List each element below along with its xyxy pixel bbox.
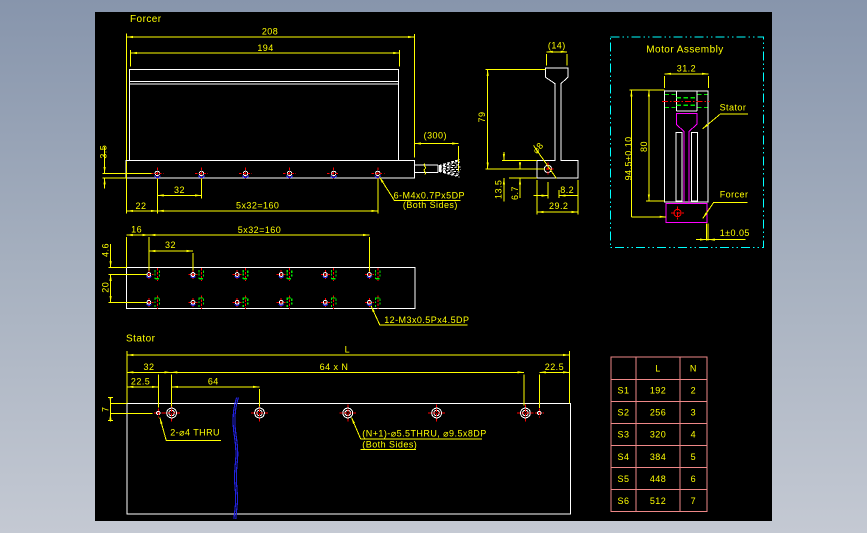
svg-text:13.5: 13.5 bbox=[494, 180, 504, 199]
side hole bbox=[542, 163, 555, 177]
extension lines below plate bbox=[127, 161, 378, 213]
dimension 22 front bbox=[127, 201, 158, 211]
svg-text:32: 32 bbox=[144, 362, 155, 372]
forcer section magenta bbox=[666, 114, 707, 223]
forcer base plate bbox=[126, 160, 414, 178]
svg-text:384: 384 bbox=[650, 452, 666, 462]
svg-text:S2: S2 bbox=[618, 408, 630, 418]
svg-text:S3: S3 bbox=[618, 430, 630, 440]
svg-text:512: 512 bbox=[650, 496, 666, 506]
forcer target mark bbox=[671, 206, 684, 219]
dimension 29.2 bbox=[537, 180, 578, 215]
assembly detail border bbox=[610, 37, 763, 248]
svg-text:32: 32 bbox=[165, 240, 176, 250]
magnet hidden lines green bbox=[665, 94, 707, 107]
svg-text:5x32=160: 5x32=160 bbox=[238, 225, 281, 235]
dimension (14) bbox=[546, 41, 567, 66]
svg-text:S5: S5 bbox=[618, 474, 630, 484]
dimension 22.5 right bbox=[539, 362, 569, 372]
svg-text:256: 256 bbox=[650, 408, 666, 418]
stator outline bbox=[127, 403, 571, 514]
leader note 2-dia4 bbox=[160, 418, 221, 441]
svg-text:4: 4 bbox=[691, 430, 696, 440]
svg-text:32: 32 bbox=[174, 185, 185, 195]
svg-text:1±0.05: 1±0.05 bbox=[720, 228, 750, 238]
svg-text:(14): (14) bbox=[548, 41, 566, 51]
dimension 7 stator bbox=[101, 397, 153, 422]
leader Forcer bbox=[703, 190, 749, 219]
svg-text:(Both Sides): (Both Sides) bbox=[403, 200, 458, 210]
dimension 5x32=160 top bbox=[149, 225, 370, 272]
forcer body outline bbox=[130, 69, 399, 160]
svg-text:L: L bbox=[655, 364, 660, 374]
svg-text:16: 16 bbox=[131, 225, 142, 235]
svg-text:22.5: 22.5 bbox=[131, 376, 150, 386]
table text bbox=[618, 364, 697, 506]
svg-text:31.2: 31.2 bbox=[677, 64, 696, 74]
break line blue bbox=[233, 398, 238, 520]
dimension 22.5 left bbox=[127, 376, 158, 387]
dimension L bbox=[127, 344, 570, 403]
stator section outline bbox=[665, 91, 709, 202]
leader note 6-M4 bbox=[379, 177, 465, 210]
stator counterbore holes bbox=[163, 405, 534, 422]
svg-text:448: 448 bbox=[650, 474, 666, 484]
dimension 194 bbox=[131, 43, 400, 67]
svg-text:S1: S1 bbox=[618, 386, 630, 396]
svg-text:5: 5 bbox=[691, 452, 696, 462]
dimension 32 front bbox=[157, 185, 201, 195]
table grid bbox=[611, 357, 707, 511]
dimension 6.7 bbox=[510, 162, 545, 200]
svg-text:29.2: 29.2 bbox=[549, 201, 568, 211]
svg-text:N: N bbox=[690, 364, 697, 374]
dimension 4.6 bbox=[100, 243, 146, 281]
svg-text:79: 79 bbox=[477, 112, 487, 123]
svg-text:194: 194 bbox=[257, 43, 273, 53]
leader note N+1 holes bbox=[352, 418, 487, 450]
drawing canvas background bbox=[95, 12, 772, 521]
tapped holes top view bbox=[144, 268, 380, 309]
svg-text:64 x N: 64 x N bbox=[320, 362, 349, 372]
svg-text:2-⌀4 THRU: 2-⌀4 THRU bbox=[170, 428, 220, 438]
dimension 94.5 bbox=[623, 90, 666, 217]
dimension 80 bbox=[639, 90, 664, 201]
svg-text:2: 2 bbox=[691, 386, 696, 396]
svg-text:5x32=160: 5x32=160 bbox=[236, 201, 279, 211]
forcer side profile bbox=[537, 68, 578, 178]
svg-text:320: 320 bbox=[650, 430, 666, 440]
stator extension lines bbox=[158, 374, 539, 408]
svg-text:8.2: 8.2 bbox=[560, 185, 574, 195]
svg-text:208: 208 bbox=[262, 27, 278, 37]
dimension 32 top bbox=[149, 240, 193, 271]
svg-text:94.5±0.10: 94.5±0.10 bbox=[623, 136, 633, 180]
svg-text:22: 22 bbox=[136, 201, 147, 211]
svg-text:3.5: 3.5 bbox=[98, 145, 108, 159]
forcer mounting holes front bbox=[151, 168, 384, 180]
dimension 31.2 bbox=[665, 64, 709, 89]
forcer top view outline bbox=[127, 268, 415, 309]
svg-text:7: 7 bbox=[691, 496, 696, 506]
dimension 3.5 bbox=[98, 145, 151, 189]
svg-text:(N+1)-⌀5.5THRU, ⌀9.5x8DP: (N+1)-⌀5.5THRU, ⌀9.5x8DP bbox=[362, 428, 486, 438]
svg-text:7: 7 bbox=[101, 407, 111, 412]
svg-text:80: 80 bbox=[639, 141, 649, 152]
svg-text:4.6: 4.6 bbox=[100, 243, 110, 257]
dimension 32 stator bbox=[127, 362, 171, 373]
svg-text:Forcer: Forcer bbox=[720, 190, 749, 200]
svg-text:Forcer: Forcer bbox=[130, 14, 162, 25]
dimension 208 bbox=[127, 27, 415, 161]
dimension 1 gap bbox=[696, 224, 750, 241]
dimension 16 top bbox=[126, 225, 149, 271]
svg-text:Stator: Stator bbox=[126, 334, 156, 345]
svg-text:L: L bbox=[345, 344, 350, 354]
svg-text:3: 3 bbox=[691, 408, 696, 418]
leader dia 8 bbox=[531, 140, 557, 178]
cable bbox=[414, 164, 438, 175]
svg-text:Stator: Stator bbox=[720, 102, 747, 112]
svg-text:S4: S4 bbox=[618, 452, 630, 462]
dimension (300) bbox=[414, 130, 458, 171]
dimension 64 bbox=[172, 376, 260, 387]
svg-text:S6: S6 bbox=[618, 496, 630, 506]
stator small holes bbox=[154, 409, 544, 418]
svg-text:6.7: 6.7 bbox=[510, 186, 520, 200]
magnet plates bbox=[676, 132, 698, 201]
dimension 64xN bbox=[171, 362, 524, 372]
leader note 12-M3 bbox=[371, 306, 469, 325]
dimension 79 bbox=[477, 69, 545, 168]
svg-text:12-M3x0.5Px4.5DP: 12-M3x0.5Px4.5DP bbox=[384, 315, 469, 325]
dimension 20 bbox=[100, 275, 146, 303]
svg-text:6: 6 bbox=[691, 474, 696, 484]
svg-text:(Both Sides): (Both Sides) bbox=[362, 440, 417, 450]
svg-text:Motor Assembly: Motor Assembly bbox=[646, 44, 723, 55]
dimension 13.5 bbox=[494, 152, 538, 201]
cable wire brush bbox=[439, 160, 461, 178]
svg-text:22.5: 22.5 bbox=[545, 362, 564, 372]
leader Stator bbox=[703, 102, 748, 129]
svg-text:192: 192 bbox=[650, 386, 666, 396]
dimension 5x32=160 front bbox=[157, 201, 377, 211]
svg-text:(300): (300) bbox=[424, 130, 447, 140]
svg-text:6-M4x0.7Px5DP: 6-M4x0.7Px5DP bbox=[394, 191, 465, 201]
svg-text:64: 64 bbox=[208, 376, 219, 386]
svg-text:20: 20 bbox=[100, 282, 110, 293]
dimension 8.2 bbox=[533, 182, 578, 199]
centerline red bbox=[662, 100, 710, 102]
